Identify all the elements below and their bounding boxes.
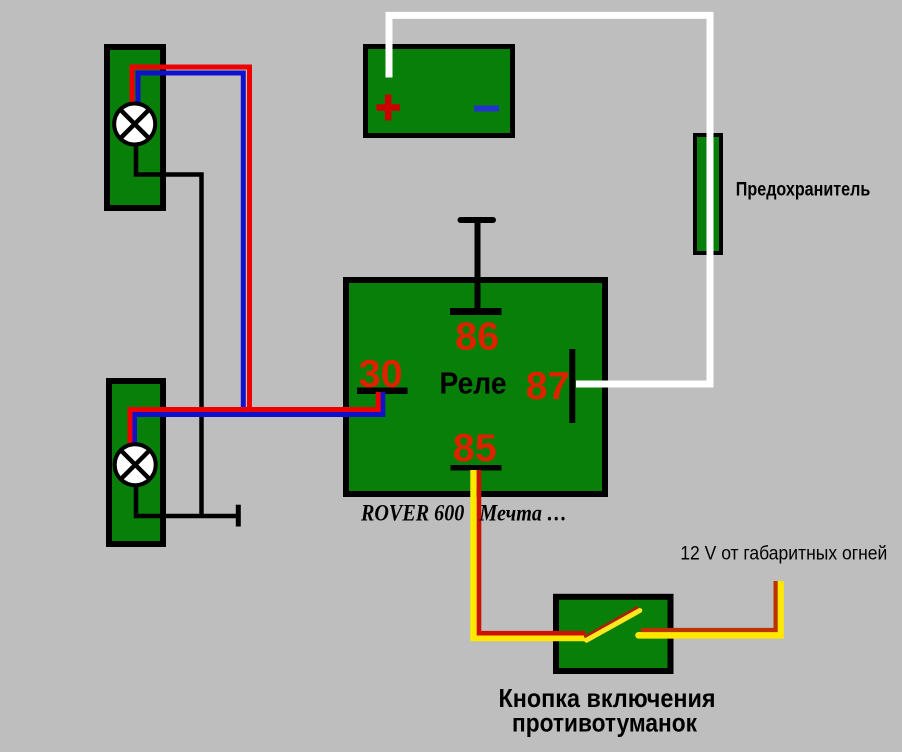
relay pin 87 terminal (right) [569,349,575,423]
wire: black ground from lamp L1 [136,144,202,516]
wire: red from lamps to relay pin 30 [130,67,378,443]
wire: red relay 85 to switch [479,470,586,633]
switch lever [585,608,639,638]
svg-text:Реле: Реле [440,365,507,400]
wire: red switch to 12V feed [641,581,776,630]
wire: yellow switch to 12V feed [638,581,781,635]
fog lamp housing L1 (top left) [107,47,163,208]
relay pin 86 terminal (coil, top) [450,220,502,312]
relay pin 30 terminal (left) [357,387,408,394]
fuse F1 [695,135,721,253]
relay pin 85 terminal (bottom) [451,465,502,471]
svg-text:Предохранитель: Предохранитель [736,180,871,201]
svg-text:30: 30 [359,353,403,396]
svg-text:86: 86 [455,315,499,358]
svg-text:87: 87 [526,365,570,408]
battery plus terminal [377,95,401,121]
relay body K1 [346,280,605,494]
battery minus terminal [474,106,499,112]
svg-text:85: 85 [453,427,497,470]
fog lamp housing L2 (bottom left) [109,381,163,544]
wire: black ground from lamp L2 to ground point [136,483,238,516]
ground symbol [236,505,241,527]
battery GB1 [366,47,513,136]
svg-text:ROVER 600 Мечта …: ROVER 600 Мечта … [360,501,567,526]
svg-text:противотуманок: противотуманок [512,708,698,738]
switch body SB1 [556,597,671,671]
lamp symbol L1 (circle with X) [114,104,155,145]
svg-text:12 V от габаритных огней: 12 V от габаритных огней [680,543,887,565]
wire: yellow relay 85 to switch [474,470,589,638]
wire: blue from lamps to relay pin 30 [135,73,383,443]
lamp symbol L2 (circle with X) [115,444,156,485]
wire: white battery + to fuse to relay pin 87 [389,15,710,384]
